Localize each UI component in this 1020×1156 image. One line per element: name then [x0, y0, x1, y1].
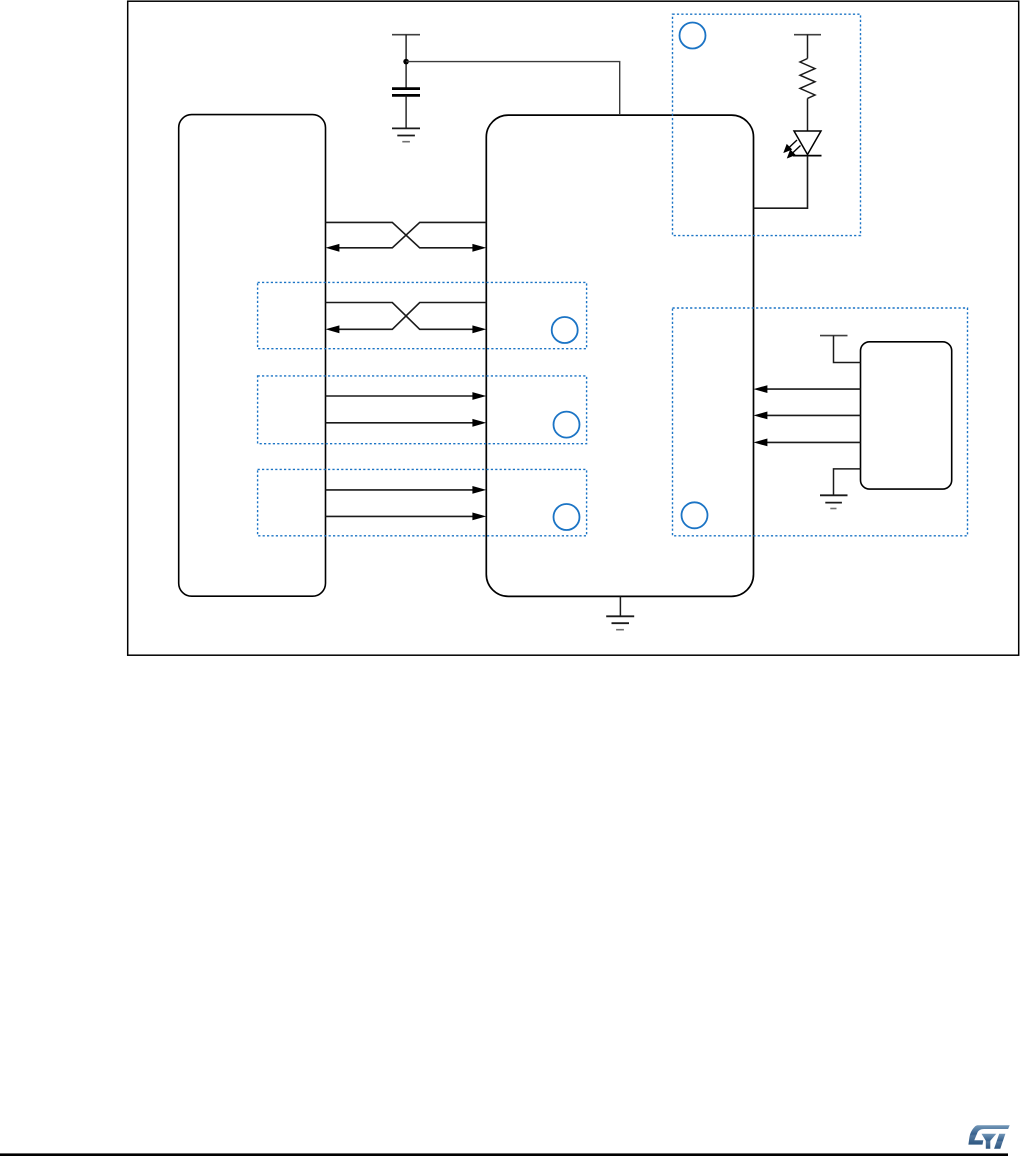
interrupt wire 2 — [767, 414, 861, 416]
wire tick to resistor — [807, 35, 809, 59]
wire supply to sensor — [834, 336, 861, 363]
wire resistor to LED — [807, 98, 809, 131]
capacitor C1 supply tick (VDD) — [392, 34, 420, 36]
resistor R1 supply tick — [794, 34, 821, 36]
interrupt wire 1 — [767, 388, 861, 390]
crossover pair B top rail — [326, 303, 473, 330]
wire host to device 2 — [326, 422, 473, 424]
sensor supply tick — [820, 335, 848, 337]
dotted box interface 3 — [258, 469, 587, 535]
wire capacitor to ground — [405, 95, 407, 128]
wire host to device 1 — [326, 395, 473, 397]
callout circle 2 — [552, 317, 578, 343]
device block U1 (main IC) — [486, 115, 753, 596]
arrow right wire 3 — [472, 486, 486, 494]
callout circle 4 — [554, 504, 580, 530]
capacitor C1 plates — [392, 87, 420, 90]
arrow left interrupt 2 — [754, 412, 768, 420]
arrow right wire 2 — [472, 419, 486, 427]
ground symbol (capacitor) — [392, 128, 420, 141]
arrow left interrupt 3 — [754, 439, 768, 447]
dotted box LED circuit — [673, 14, 861, 235]
wire LED to device block — [754, 156, 808, 209]
wire VDD to capacitor — [405, 35, 407, 88]
crossover pair A top rail — [326, 222, 473, 247]
crossover pair A arrow left — [326, 244, 340, 252]
dotted box interface 2 — [258, 376, 587, 444]
arrow right wire 4 — [472, 513, 486, 521]
interrupt wire 3 — [767, 441, 861, 443]
LED emission arrow 2 — [788, 146, 801, 158]
callout circle 3 — [554, 412, 580, 438]
wire sensor to ground — [834, 469, 861, 495]
dotted box interface 1 — [258, 282, 587, 348]
arrow right wire 1 — [472, 392, 486, 400]
ST logo — [968, 1125, 1009, 1148]
wire node to device top — [406, 62, 620, 116]
ground symbol (device) — [606, 616, 634, 629]
arrow left interrupt 1 — [754, 385, 768, 393]
wire host to device 4 — [326, 515, 473, 517]
wire host to device 3 — [326, 489, 473, 491]
node junction dot — [403, 59, 409, 65]
crossover pair A bottom rail — [339, 222, 486, 247]
callout circle 1 — [680, 23, 706, 49]
LED D1 cathode bar — [793, 155, 822, 157]
ground symbol (sensor) — [820, 495, 848, 508]
LED D1 triangle — [794, 131, 821, 155]
figure frame — [128, 1, 1019, 655]
wire device to ground — [619, 596, 621, 616]
footer rule — [0, 1153, 1008, 1156]
resistor R1 — [800, 59, 815, 99]
crossover pair A arrow right — [472, 244, 486, 252]
callout circle 5 — [682, 502, 708, 528]
crossover pair B bottom rail — [339, 303, 486, 330]
LED emission arrow 1 — [785, 140, 798, 152]
sensor block U2 — [861, 342, 952, 489]
crossover pair B arrow right — [472, 325, 486, 333]
host block (left MCU) — [179, 115, 326, 597]
crossover pair B arrow left — [326, 325, 340, 333]
dotted box interrupt source — [673, 308, 968, 536]
